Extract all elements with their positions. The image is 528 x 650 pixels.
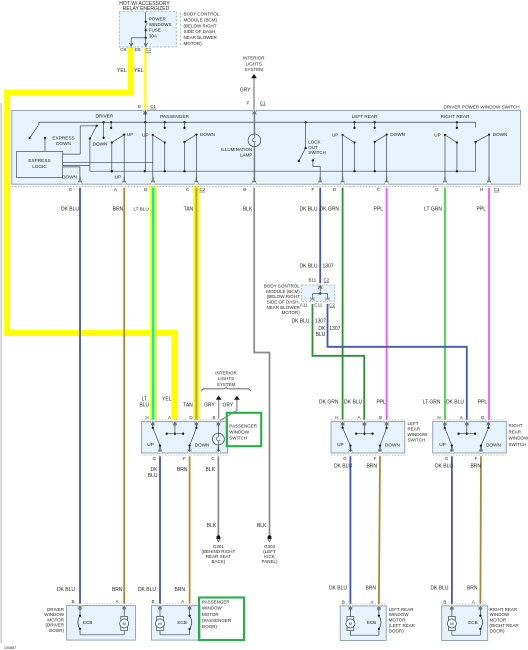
svg-text:PPL: PPL	[477, 207, 487, 213]
svg-text:A: A	[114, 187, 117, 192]
svg-text:(DRIVER: (DRIVER	[45, 623, 64, 628]
svg-text:B: B	[443, 599, 446, 604]
svg-text:DOOR): DOOR)	[49, 628, 65, 633]
svg-text:BLK: BLK	[243, 207, 253, 213]
svg-text:(LEFT REAR: (LEFT REAR	[389, 623, 416, 628]
svg-text:NEAR BLOWER: NEAR BLOWER	[267, 305, 301, 310]
svg-text:BRN: BRN	[112, 587, 123, 593]
svg-text:LOCK: LOCK	[308, 140, 320, 145]
svg-text:REAR: REAR	[509, 429, 522, 434]
svg-text:LT GRN: LT GRN	[424, 207, 442, 213]
svg-text:SIDE OF DASH,: SIDE OF DASH,	[267, 300, 300, 305]
svg-text:C1: C1	[494, 187, 500, 192]
svg-text:UP: UP	[115, 174, 122, 179]
svg-text:DK BLU: DK BLU	[344, 400, 362, 406]
svg-text:BRN: BRN	[467, 585, 478, 591]
svg-text:YEL: YEL	[117, 68, 127, 74]
svg-text:1307: 1307	[323, 263, 334, 269]
svg-text:30A: 30A	[149, 33, 157, 38]
svg-text:DOWN: DOWN	[493, 132, 508, 137]
svg-text:ILLUMINATION: ILLUMINATION	[221, 147, 252, 152]
svg-text:REAR: REAR	[408, 427, 421, 432]
svg-text:DK BLU: DK BLU	[446, 400, 464, 406]
svg-text:100887: 100887	[4, 646, 16, 650]
svg-text:GRY: GRY	[240, 88, 251, 94]
svg-text:RIGHT REAR: RIGHT REAR	[490, 607, 518, 612]
svg-text:1307: 1307	[329, 326, 340, 332]
svg-text:BRN: BRN	[365, 585, 376, 591]
svg-text:DK BLU: DK BLU	[430, 585, 448, 591]
svg-text:ECB: ECB	[367, 620, 376, 625]
svg-text:RIGHT REAR: RIGHT REAR	[441, 114, 470, 119]
svg-text:INTERIOR: INTERIOR	[215, 371, 237, 376]
svg-text:DOWN: DOWN	[200, 132, 215, 137]
svg-text:MOTOR: MOTOR	[47, 617, 64, 622]
svg-text:M: M	[123, 621, 126, 626]
svg-text:A: A	[181, 599, 184, 604]
svg-text:E: E	[69, 187, 72, 192]
svg-text:POWER: POWER	[149, 16, 167, 21]
svg-text:LT GRN: LT GRN	[423, 400, 441, 406]
svg-text:A: A	[472, 599, 475, 604]
svg-text:1307: 1307	[315, 318, 326, 324]
svg-text:EXPRESS: EXPRESS	[52, 135, 74, 140]
svg-text:G: G	[435, 187, 439, 192]
svg-text:MODULE (BCM): MODULE (BCM)	[184, 17, 218, 22]
svg-text:DK BLU: DK BLU	[61, 207, 79, 213]
svg-text:C1: C1	[146, 47, 152, 52]
svg-text:SWITCH: SWITCH	[308, 150, 326, 155]
svg-text:DK GRN: DK GRN	[320, 207, 340, 213]
svg-text:BLU: BLU	[139, 403, 149, 409]
svg-text:B: B	[144, 187, 147, 192]
svg-text:C1: C1	[150, 104, 156, 109]
svg-text:PPL: PPL	[374, 207, 384, 213]
svg-text:LEFT REAR: LEFT REAR	[389, 607, 414, 612]
svg-text:SWITCH: SWITCH	[229, 435, 247, 440]
svg-text:(BELOW RIGHT: (BELOW RIGHT	[267, 294, 300, 299]
svg-text:INTERIOR: INTERIOR	[243, 56, 265, 61]
svg-text:B: B	[212, 415, 215, 420]
svg-text:BRN: BRN	[174, 587, 185, 593]
svg-text:LEFT: LEFT	[408, 421, 419, 426]
svg-text:SYSTEM: SYSTEM	[245, 67, 264, 72]
svg-text:DOWN: DOWN	[93, 142, 108, 147]
svg-text:NEAR BLOWER: NEAR BLOWER	[184, 35, 218, 40]
svg-text:B: B	[71, 599, 74, 604]
svg-text:SWITCH: SWITCH	[509, 442, 527, 447]
svg-text:OUT: OUT	[308, 145, 318, 150]
svg-text:YEL: YEL	[162, 397, 172, 403]
svg-text:M: M	[450, 621, 453, 626]
svg-text:DK BLU: DK BLU	[334, 464, 352, 470]
svg-text:BRN: BRN	[113, 207, 124, 213]
svg-text:BRN: BRN	[470, 464, 481, 470]
svg-text:G: G	[343, 456, 347, 461]
svg-text:UP: UP	[434, 133, 441, 138]
svg-text:ECB: ECB	[468, 620, 477, 625]
svg-text:BLU: BLU	[316, 332, 326, 338]
svg-text:BLK: BLK	[257, 523, 267, 529]
svg-text:TAN: TAN	[183, 402, 193, 408]
svg-text:C1: C1	[260, 101, 266, 106]
svg-text:C2: C2	[200, 187, 206, 192]
svg-text:DOWN: DOWN	[62, 174, 77, 179]
svg-text:WINDOW: WINDOW	[229, 429, 249, 434]
svg-text:BODY CONTROL: BODY CONTROL	[184, 12, 220, 17]
svg-text:WINDOW: WINDOW	[490, 612, 510, 617]
svg-text:M: M	[349, 621, 352, 626]
svg-text:DK BLU: DK BLU	[138, 587, 156, 593]
svg-text:PPL: PPL	[478, 400, 488, 406]
svg-text:DK BLU: DK BLU	[435, 464, 453, 470]
svg-text:DK GRN: DK GRN	[319, 400, 339, 406]
svg-text:C2: C2	[324, 277, 330, 282]
svg-text:LEFT REAR: LEFT REAR	[352, 114, 378, 119]
svg-text:SWITCH: SWITCH	[408, 438, 426, 443]
svg-text:B11: B11	[309, 277, 317, 282]
svg-text:H: H	[145, 415, 148, 420]
svg-text:DOOR): DOOR)	[389, 628, 405, 633]
svg-text:BLK: BLK	[207, 523, 217, 529]
svg-text:H: H	[480, 187, 483, 192]
svg-text:PANEL): PANEL)	[262, 559, 278, 564]
svg-text:PASSENGER: PASSENGER	[202, 600, 230, 605]
svg-text:(BELOW RIGHT: (BELOW RIGHT	[184, 23, 217, 28]
svg-text:WINDOW: WINDOW	[408, 432, 428, 437]
svg-text:PPL: PPL	[376, 400, 386, 406]
svg-text:H: H	[437, 415, 440, 420]
svg-text:DOWN: DOWN	[56, 141, 71, 146]
svg-text:MOTOR): MOTOR)	[184, 41, 203, 46]
svg-text:A: A	[168, 415, 171, 420]
svg-text:A11: A11	[300, 302, 308, 307]
svg-text:UP: UP	[127, 132, 134, 137]
svg-text:B: B	[243, 187, 246, 192]
svg-text:UP: UP	[142, 133, 149, 138]
svg-text:DK BLU: DK BLU	[299, 207, 317, 213]
svg-text:B: B	[342, 599, 345, 604]
svg-text:TAN: TAN	[184, 207, 194, 213]
svg-text:F: F	[374, 456, 377, 461]
svg-text:F: F	[311, 187, 314, 192]
svg-text:F: F	[247, 101, 250, 106]
svg-text:DK BLU: DK BLU	[291, 318, 309, 324]
svg-text:F: F	[475, 456, 478, 461]
svg-text:UP: UP	[147, 442, 154, 447]
svg-text:DOWN: DOWN	[390, 132, 405, 137]
svg-text:F: F	[183, 456, 186, 461]
svg-text:C11: C11	[314, 302, 322, 307]
svg-text:A: A	[460, 415, 463, 420]
svg-text:WINDOW: WINDOW	[202, 606, 222, 611]
svg-text:G: G	[445, 456, 449, 461]
svg-text:M: M	[158, 621, 161, 626]
svg-text:BRN: BRN	[366, 464, 377, 470]
svg-text:C8: C8	[120, 47, 126, 52]
svg-text:MOTOR): MOTOR)	[282, 310, 301, 315]
svg-text:ECB: ECB	[83, 620, 92, 625]
svg-text:SIDE OF DASH,: SIDE OF DASH,	[184, 29, 217, 34]
svg-text:G: G	[153, 456, 157, 461]
svg-text:UP: UP	[332, 133, 339, 138]
svg-text:DK: DK	[151, 467, 159, 473]
svg-text:ECB: ECB	[177, 620, 186, 625]
svg-text:SYSTEM: SYSTEM	[217, 382, 236, 387]
svg-text:MOTOR: MOTOR	[389, 618, 406, 623]
svg-text:BODY CONTROL: BODY CONTROL	[264, 284, 300, 289]
svg-text:LAMP: LAMP	[240, 152, 252, 157]
svg-text:GRY: GRY	[222, 402, 233, 408]
svg-text:UP: UP	[337, 442, 344, 447]
svg-text:DK BLU: DK BLU	[299, 263, 317, 269]
svg-text:LIGHTS: LIGHTS	[218, 376, 234, 381]
svg-text:BLK: BLK	[206, 467, 216, 473]
svg-text:RIGHT: RIGHT	[509, 423, 523, 428]
svg-text:MODULE (BCM): MODULE (BCM)	[266, 289, 300, 294]
svg-text:WINDOW: WINDOW	[44, 612, 64, 617]
svg-text:DOOR): DOOR)	[490, 628, 506, 633]
svg-text:B: B	[151, 599, 154, 604]
svg-text:WINDOWS: WINDOWS	[149, 22, 172, 27]
svg-text:H: H	[335, 415, 338, 420]
svg-text:DK BLU: DK BLU	[329, 585, 347, 591]
svg-text:DOWN: DOWN	[195, 443, 210, 448]
svg-text:(RIGHT REAR: (RIGHT REAR	[490, 623, 520, 628]
svg-text:DRIVER: DRIVER	[95, 114, 113, 119]
svg-text:(PASSENGER: (PASSENGER	[202, 618, 232, 623]
svg-text:DK BLU: DK BLU	[57, 587, 75, 593]
svg-text:A: A	[116, 599, 119, 604]
svg-text:PASSENGER: PASSENGER	[229, 423, 257, 428]
svg-text:D8: D8	[135, 47, 141, 52]
svg-text:MOTOR: MOTOR	[202, 612, 219, 617]
svg-text:UP: UP	[439, 442, 446, 447]
svg-text:BACK): BACK)	[212, 559, 226, 564]
svg-text:DOOR): DOOR)	[202, 624, 218, 629]
svg-text:DRIVER POWER WINDOW SWITCH: DRIVER POWER WINDOW SWITCH	[443, 105, 519, 110]
svg-text:DOWN: DOWN	[486, 443, 501, 448]
svg-text:WINDOW: WINDOW	[389, 612, 409, 617]
svg-text:A: A	[357, 415, 360, 420]
svg-text:LOGIC: LOGIC	[32, 164, 47, 169]
svg-text:WINDOW: WINDOW	[509, 436, 528, 441]
svg-text:A: A	[370, 599, 373, 604]
svg-text:PASSENGER: PASSENGER	[160, 114, 189, 119]
svg-text:GRY: GRY	[204, 402, 215, 408]
svg-text:EXPRESS: EXPRESS	[28, 158, 50, 163]
svg-text:LIGHTS: LIGHTS	[246, 61, 262, 66]
svg-text:FUSE: FUSE	[149, 28, 161, 33]
svg-text:YEL: YEL	[134, 68, 144, 74]
svg-text:C2: C2	[329, 302, 335, 307]
svg-text:LT BLU: LT BLU	[133, 207, 149, 212]
svg-text:BRN: BRN	[177, 467, 188, 473]
svg-text:BLU: BLU	[148, 473, 158, 479]
svg-text:E: E	[138, 104, 141, 109]
svg-text:DOWN: DOWN	[385, 443, 400, 448]
svg-text:DRIVER: DRIVER	[47, 607, 65, 612]
svg-text:MOTOR: MOTOR	[490, 618, 507, 623]
svg-text:DK: DK	[318, 326, 326, 332]
